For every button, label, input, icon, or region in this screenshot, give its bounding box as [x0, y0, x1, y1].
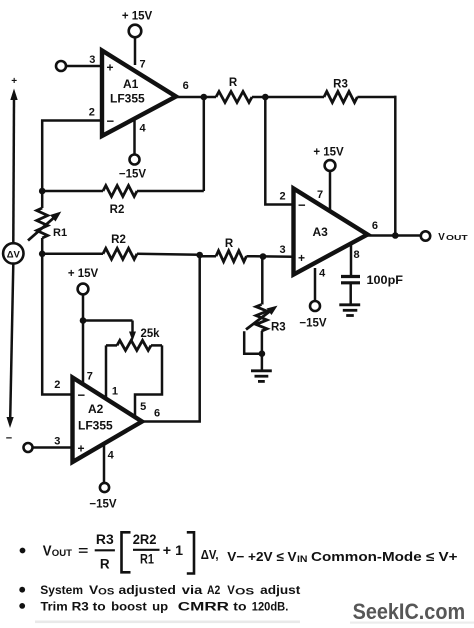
wire R to A3 pin3 [246, 255, 293, 258]
svg-text:ΔV,: ΔV, [201, 547, 219, 562]
svg-text:R: R [225, 238, 234, 250]
svg-text:Common-Mode ≤ V+: Common-Mode ≤ V+ [311, 549, 458, 564]
svg-text:LF355: LF355 [78, 419, 113, 433]
pin 1 label A2 [112, 386, 118, 398]
+15V supply A3 [313, 147, 344, 213]
wire trimmer to ground [261, 331, 264, 370]
svg-text:OUT: OUT [446, 235, 469, 242]
pin 2 label A1 [89, 107, 95, 119]
svg-text:IN: IN [297, 554, 308, 564]
svg-text:−: − [78, 388, 86, 403]
svg-text:7: 7 [139, 59, 145, 71]
source deltaV (differential voltage) [3, 243, 23, 263]
svg-text:1: 1 [112, 386, 118, 398]
capacitor 100pF [341, 275, 403, 287]
resistor R (top, A1 out to A3 inverting node) [216, 77, 252, 103]
svg-text:6: 6 [372, 220, 378, 232]
wire R3 to right vertical [357, 96, 396, 99]
svg-text:25k: 25k [141, 328, 161, 340]
svg-text:=: = [78, 543, 89, 558]
node plus sign (differential input +) [11, 76, 17, 87]
node feedback / R1 top junction [39, 188, 46, 195]
pin 5 label A2 [140, 401, 146, 413]
svg-text:4: 4 [108, 450, 115, 462]
svg-text:2: 2 [89, 107, 95, 119]
node minus sign (differential input -) [6, 433, 12, 445]
smudge under watermark [350, 622, 474, 624]
svg-text:V− +2V ≤ V: V− +2V ≤ V [227, 549, 297, 564]
pin 6 label A2 [154, 408, 160, 420]
wire cap to ground [349, 283, 352, 304]
wire R to R3 [252, 96, 324, 99]
svg-text:Trim: Trim [41, 599, 68, 613]
pin 7 label A1 [139, 59, 145, 71]
svg-text:−15V: −15V [299, 318, 327, 330]
node R1 bottom junction [39, 251, 46, 258]
svg-text:3: 3 [54, 436, 60, 448]
wire 25k right terminal to A2 pin5 [135, 345, 162, 417]
node trimmer wiper junction [259, 350, 266, 357]
resistor R3 (feedback of A3) [324, 79, 357, 103]
svg-text:V: V [43, 544, 52, 560]
node R2 / R / A2 output junction [196, 252, 203, 259]
svg-text:A3: A3 [313, 225, 329, 239]
svg-text:A2: A2 [88, 402, 104, 416]
-15V supply A3 [299, 268, 327, 330]
input terminal A1 pin3 [56, 61, 102, 71]
note bullet 2: system Vos adjust [19, 583, 300, 597]
svg-text:R3: R3 [333, 79, 348, 91]
svg-text:boost: boost [111, 599, 147, 613]
-15V supply A2 [89, 444, 117, 511]
ground (under 100pF) [339, 305, 360, 316]
svg-text:−: − [107, 114, 115, 129]
wire A3 pin8 down [350, 242, 353, 276]
wire R2 to A2 output node [137, 254, 200, 255]
op-amp A2 LF355 triangle [73, 378, 143, 463]
output terminal VOUT [421, 231, 469, 243]
svg-text:R1: R1 [53, 227, 67, 239]
svg-text:3: 3 [279, 244, 285, 256]
resistor R (lower, to A3 non-inverting input) [216, 238, 246, 262]
svg-text:OS: OS [98, 587, 114, 597]
potentiometer 25k (offset null) [106, 328, 162, 350]
op-amp A3 triangle [294, 189, 368, 275]
watermark SeekIC.com [353, 599, 466, 624]
svg-text:System: System [40, 583, 83, 597]
svg-text:+: + [11, 76, 17, 87]
pin 8 label A3 [353, 249, 359, 261]
svg-text:SeekIC.com: SeekIC.com [353, 599, 466, 624]
pin 4 label A1 [139, 123, 146, 135]
wire down arrow (to - terminal) [7, 264, 14, 428]
wire A3 pin3 node down to trimmer [261, 257, 264, 305]
node VOUT junction [392, 232, 399, 239]
svg-text:OUT: OUT [52, 548, 72, 559]
pin 3 label A3 [279, 244, 285, 256]
wire A3 output [368, 234, 421, 237]
svg-text:CMRR: CMRR [178, 599, 230, 613]
ground (under trimmer R3) [251, 371, 272, 382]
wire feedback line right segment [137, 190, 204, 193]
wire 25k wiper from +15V [83, 321, 136, 342]
wire A2 output to R2/R node [142, 255, 200, 422]
svg-text:−: − [298, 198, 306, 213]
wire R/R3 node down to A3 pin2 [265, 97, 293, 205]
svg-text:OS: OS [235, 587, 254, 597]
wire up arrow (to + terminal) [10, 89, 17, 243]
pin 4 label A3 [319, 268, 326, 280]
pin 2 label A3 [279, 191, 285, 203]
svg-text:−: − [6, 433, 12, 445]
svg-text:A1: A1 [123, 77, 139, 91]
svg-text:7: 7 [317, 189, 323, 201]
resistor R2 (lower, to A2 summing node) [103, 234, 137, 259]
pin 7 label A2 [87, 371, 93, 383]
svg-text:+: + [78, 442, 85, 456]
svg-text:A2: A2 [207, 583, 221, 597]
svg-text:ΔV: ΔV [7, 250, 21, 261]
svg-text:R3: R3 [96, 532, 114, 547]
-15V supply A1 [119, 118, 147, 181]
pin 3 label A2 [54, 436, 60, 448]
node A3 pin3 / trimmer R3 junction [260, 253, 267, 260]
resistor R2 (A1 feedback) [103, 186, 137, 217]
pin 3 label A1 [89, 54, 95, 66]
pin 6 label A3 [372, 220, 378, 232]
svg-text:3: 3 [89, 54, 95, 66]
svg-text:R: R [229, 77, 238, 89]
smudge under notes [35, 621, 300, 624]
svg-text:V: V [227, 583, 235, 597]
potentiometer R1 (gain set, variable) [28, 191, 67, 253]
svg-text:V: V [89, 583, 98, 597]
svg-text:2R2: 2R2 [133, 532, 157, 547]
svg-text:to: to [93, 599, 106, 613]
pin 4 label A2 [108, 450, 115, 462]
wire right vertical down to VOUT node [394, 96, 397, 236]
svg-text:R2: R2 [111, 234, 126, 246]
svg-text:adjusted: adjusted [119, 583, 176, 597]
node R / R3 junction [262, 94, 269, 101]
svg-text:+ 15V: + 15V [313, 147, 344, 159]
svg-text:+: + [298, 251, 305, 265]
svg-text:adjust: adjust [260, 583, 300, 597]
+15V supply A1 [122, 11, 153, 66]
svg-text:+: + [107, 61, 114, 75]
wire feedback line left segment [42, 190, 103, 193]
wire node to resistor R (lower) [200, 255, 216, 258]
wire A1 output to resistor R [176, 96, 216, 99]
svg-text:5: 5 [140, 401, 146, 413]
svg-text:R3: R3 [72, 599, 90, 613]
svg-text:+ 15V: + 15V [122, 11, 153, 23]
+15V supply A2 [68, 268, 99, 385]
svg-text:8: 8 [353, 249, 359, 261]
input terminal A2 pin3 [24, 443, 73, 452]
svg-text:R: R [100, 557, 110, 572]
svg-text:6: 6 [183, 80, 189, 92]
note bullet 3: trim R3 [19, 599, 288, 613]
wire R1 node to R2 (lower) [42, 253, 103, 256]
svg-text:2: 2 [279, 191, 285, 203]
svg-text:R1: R1 [140, 552, 154, 567]
svg-text:4: 4 [319, 268, 326, 280]
svg-text:100pF: 100pF [367, 275, 404, 287]
pin 2 label A2 [54, 379, 60, 391]
svg-text:2: 2 [54, 379, 60, 391]
svg-text:−15V: −15V [119, 169, 147, 181]
svg-text:LF355: LF355 [110, 92, 145, 106]
svg-text:4: 4 [139, 123, 146, 135]
formula bullet 1: VOUT equation [20, 532, 458, 574]
svg-text:to: to [233, 599, 246, 613]
node +15V / 25k wiper junction [80, 317, 87, 324]
op-amp A1 LF355 triangle [102, 51, 176, 137]
svg-text:+ 1: + 1 [163, 543, 184, 558]
svg-text:via: via [182, 583, 203, 597]
svg-text:120dB.: 120dB. [252, 599, 288, 613]
svg-text:up: up [152, 599, 168, 613]
svg-text:6: 6 [154, 408, 160, 420]
svg-text:R3: R3 [271, 322, 286, 334]
svg-text:7: 7 [87, 371, 93, 383]
node A1 output junction [201, 94, 208, 101]
svg-text:V: V [438, 232, 445, 243]
svg-text:−15V: −15V [89, 499, 117, 511]
svg-text:R2: R2 [110, 204, 125, 216]
wire R1 node down to A2 pin2 [42, 254, 72, 395]
pin 6 label A1 [183, 80, 189, 92]
wire 25k left terminal to A2 pin1 [105, 345, 108, 399]
pin 7 label A3 [317, 189, 323, 201]
wire A1 pin2 [42, 121, 102, 192]
svg-text:+ 15V: + 15V [68, 268, 99, 280]
potentiometer R3 (CMRR trim) [244, 305, 286, 354]
wire A1 output down to feedback R2 [203, 97, 206, 191]
